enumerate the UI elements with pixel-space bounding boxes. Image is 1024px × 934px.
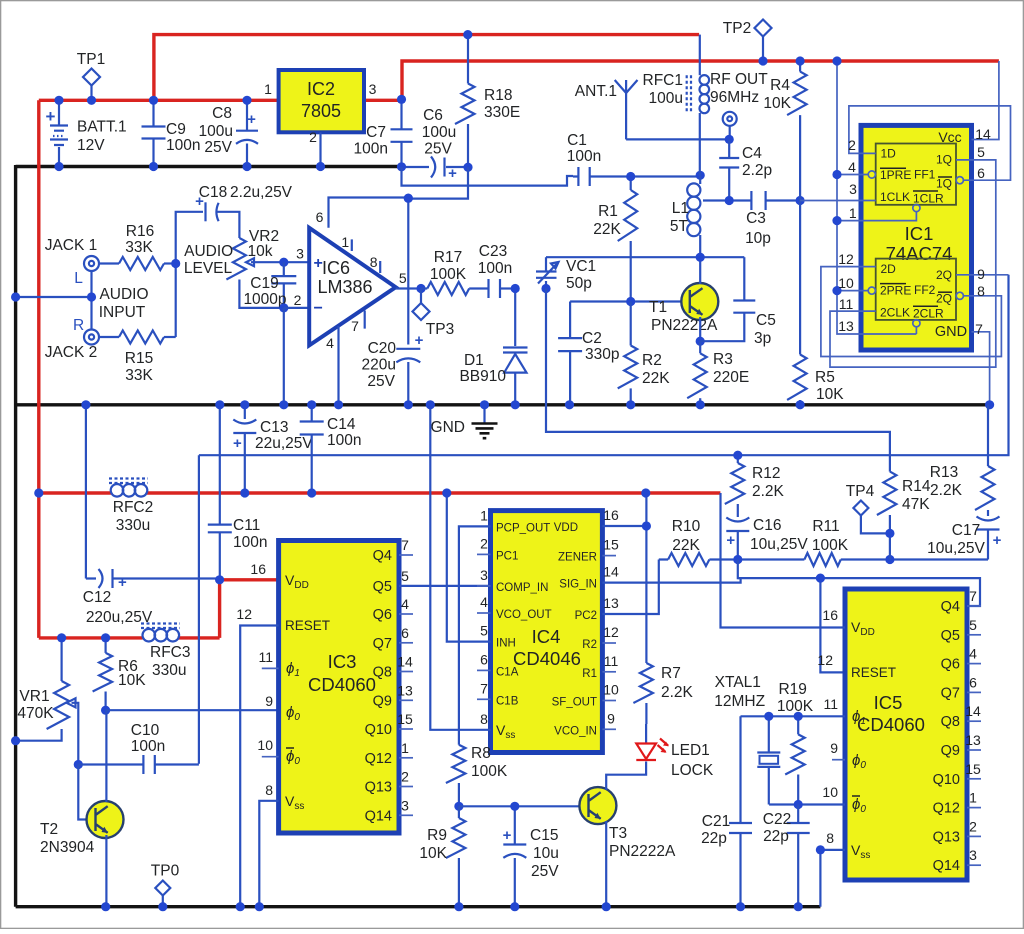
node IC4 Vss ground: [426, 400, 435, 409]
svg-text:Q12: Q12: [365, 751, 392, 767]
svg-text:3: 3: [849, 181, 857, 197]
svg-text:13: 13: [838, 318, 854, 334]
svg-text:ZENER: ZENER: [558, 552, 597, 564]
svg-text:RFC3: RFC3: [150, 644, 190, 661]
wire T2 collector: [105, 710, 107, 802]
node C7 ground: [397, 162, 406, 171]
node C9 ground: [149, 162, 158, 171]
svg-text:4: 4: [969, 646, 977, 662]
node L1 top: [696, 171, 705, 180]
svg-text:TP3: TP3: [426, 321, 454, 338]
resistor R2: [630, 302, 632, 346]
svg-text:13: 13: [397, 682, 413, 698]
svg-text:33K: 33K: [125, 367, 153, 384]
svg-text:R4: R4: [770, 77, 790, 94]
svg-text:C9: C9: [166, 121, 186, 138]
node R2 ground: [626, 400, 635, 409]
svg-text:Q7: Q7: [941, 685, 960, 701]
svg-text:R10: R10: [672, 518, 701, 535]
node C2 ground: [565, 400, 574, 409]
wire T2 base: [78, 765, 95, 820]
node R5 ground: [796, 400, 805, 409]
node R16 junction: [171, 259, 180, 268]
wire 2Q feedback line: [199, 275, 1009, 455]
svg-text:4: 4: [326, 335, 334, 351]
wire IC5 phi1 line: [741, 715, 846, 717]
wire pin4 1PRE: [837, 174, 868, 176]
wire pin1 1CLR: [837, 212, 916, 221]
svg-text:R12: R12: [752, 465, 780, 482]
svg-text:CD4060: CD4060: [308, 674, 376, 695]
svg-text:C18: C18: [199, 184, 227, 201]
wire T2 emitter: [105, 835, 107, 907]
capacitor C7: [400, 99, 402, 129]
wire IC4 VDD to 5V: [602, 493, 646, 663]
svg-text:10p: 10p: [745, 230, 771, 247]
IC3 phi0bar stub: [262, 756, 279, 758]
resistor R6: [104, 638, 106, 653]
IC IC1 74AC74 body: [861, 125, 972, 350]
svg-text:R19: R19: [778, 681, 806, 698]
wire SIGIN step: [738, 577, 741, 579]
wire opamp pin5 out: [396, 287, 421, 289]
svg-text:R11: R11: [812, 518, 839, 535]
svg-text:1: 1: [341, 234, 349, 250]
svg-text:3: 3: [369, 81, 377, 97]
svg-text:2: 2: [848, 137, 856, 153]
svg-text:Q14: Q14: [365, 808, 392, 824]
svg-text:16: 16: [603, 507, 619, 523]
IC3 output pins: [399, 554, 413, 556]
svg-text:BB910: BB910: [459, 368, 506, 385]
wire T1 base: [570, 300, 682, 302]
inductor RFC2: [109, 479, 148, 484]
svg-text:TP1: TP1: [77, 51, 105, 68]
svg-text:10K: 10K: [816, 386, 844, 403]
node VC1: [541, 284, 550, 293]
IC IC4 CD4046 body: [491, 511, 603, 753]
wire black rail bottom (ground bus 4): [16, 905, 821, 908]
svg-text:100u: 100u: [649, 90, 683, 107]
svg-text:11: 11: [258, 649, 273, 665]
svg-text:TP4: TP4: [846, 483, 875, 500]
svg-text:12: 12: [817, 652, 833, 668]
node IC4 VDD: [642, 521, 651, 530]
svg-text:IC4: IC4: [532, 626, 561, 647]
node D1: [511, 284, 520, 293]
svg-text:16: 16: [822, 607, 838, 623]
svg-text:R2: R2: [582, 639, 597, 651]
wire filter line: [659, 558, 988, 560]
svg-text:100u: 100u: [422, 124, 456, 141]
svg-text:Q10: Q10: [933, 772, 960, 788]
svg-text:6: 6: [969, 674, 977, 690]
resistor R16: [99, 262, 119, 264]
resistor R18: [467, 35, 469, 84]
node pin4 ground: [334, 400, 343, 409]
antenna ANT.1: [625, 93, 627, 139]
svg-text:5T: 5T: [670, 218, 689, 235]
svg-text:Q5: Q5: [373, 579, 392, 595]
wire IC5 phi0bar line: [769, 803, 845, 805]
svg-text:R16: R16: [126, 223, 154, 240]
battery BATT.1: [58, 100, 60, 125]
svg-text:100n: 100n: [354, 141, 388, 158]
svg-text:C21: C21: [702, 813, 730, 830]
svg-text:5: 5: [969, 617, 977, 633]
svg-text:Q13: Q13: [933, 829, 960, 845]
op-amp IC6 LM386: [309, 228, 396, 346]
flip-flop FF2 box: [876, 259, 956, 320]
capacitor C23: [489, 279, 501, 298]
connector RF OUT: [723, 112, 737, 126]
svg-text:SF_OUT: SF_OUT: [552, 697, 597, 709]
svg-text:22p: 22p: [701, 830, 727, 847]
svg-text:PN2222A: PN2222A: [651, 317, 718, 334]
svg-text:100K: 100K: [430, 266, 467, 283]
resistor R3: [699, 341, 701, 353]
wire VC1 tuning line: [546, 289, 890, 472]
wire red rail low (RFC3 feed): [39, 580, 280, 638]
wire IC4 INH to 5V: [447, 493, 491, 642]
inductor RFC1: [699, 35, 701, 76]
svg-text:+: +: [118, 574, 127, 591]
resistor R5: [799, 201, 801, 355]
svg-text:RESET: RESET: [851, 665, 896, 680]
svg-text:PC1: PC1: [496, 550, 518, 562]
wire pin2 1D loop: [849, 106, 1011, 180]
svg-text:10k: 10k: [248, 243, 273, 260]
svg-text:ANT.1: ANT.1: [575, 83, 617, 100]
svg-text:2Q: 2Q: [936, 292, 952, 306]
svg-text:5: 5: [977, 144, 985, 160]
node amp supply ground: [404, 400, 413, 409]
wire pin2 to amp: [284, 307, 309, 309]
svg-text:C23: C23: [479, 243, 507, 260]
svg-text:12: 12: [838, 251, 854, 267]
LED LED1 LOCK: [645, 724, 647, 743]
node reset riser: [816, 574, 825, 583]
svg-text:R: R: [73, 317, 84, 334]
capacitor C21: [739, 716, 741, 823]
svg-text:+: +: [726, 532, 735, 549]
resistor R10: [668, 553, 709, 566]
svg-text:R18: R18: [484, 87, 512, 104]
svg-text:3: 3: [401, 797, 409, 813]
svg-text:3: 3: [296, 246, 304, 262]
wire C1 to L1: [631, 175, 701, 177]
node R11 right: [885, 555, 894, 564]
svg-text:10: 10: [838, 275, 854, 291]
svg-text:22K: 22K: [593, 221, 621, 238]
node C3/R4/R5: [796, 196, 805, 205]
svg-text:IC2: IC2: [307, 79, 335, 99]
node pin6 junction: [404, 194, 413, 203]
svg-text:13: 13: [603, 595, 619, 611]
svg-text:LM386: LM386: [317, 277, 372, 297]
svg-text:8: 8: [480, 711, 488, 727]
wire pin3 1CLK: [800, 200, 876, 202]
svg-text:R3: R3: [713, 351, 733, 368]
svg-text:25V: 25V: [204, 139, 232, 156]
svg-text:22K: 22K: [672, 537, 700, 554]
wire red IC2 pin3 to 5V bus: [364, 61, 999, 100]
svg-text:R15: R15: [125, 350, 153, 367]
svg-text:8: 8: [977, 283, 985, 299]
node preset bus top: [832, 56, 841, 65]
wire C7 to C1 net: [402, 167, 574, 186]
wire IC5 Vss: [820, 850, 845, 907]
svg-text:C15: C15: [530, 827, 558, 844]
svg-text:2CLK: 2CLK: [880, 305, 910, 319]
svg-text:15: 15: [603, 537, 619, 553]
wire red left vertical: [37, 100, 40, 638]
svg-text:R2: R2: [642, 352, 662, 369]
svg-text:Q10: Q10: [365, 722, 392, 738]
svg-text:1Q: 1Q: [936, 153, 952, 167]
capacitor C12: [85, 405, 87, 579]
wire C6 to amp supply: [408, 167, 468, 198]
node R19 top: [794, 712, 803, 721]
svg-text:PC2: PC2: [575, 610, 597, 622]
svg-text:C10: C10: [131, 722, 160, 739]
node C21 ground: [736, 902, 745, 911]
node IC1 ground: [985, 400, 994, 409]
resistor R17: [421, 287, 427, 289]
svg-text:PCP_OUT: PCP_OUT: [496, 522, 550, 534]
IC3 reset wire: [240, 626, 278, 907]
node R18 top: [463, 30, 472, 39]
wire T3 collector: [606, 762, 646, 791]
svg-text:RF OUT: RF OUT: [710, 71, 768, 88]
svg-text:T1: T1: [649, 299, 667, 316]
wire pin8 2Qbar to 2D: [821, 267, 1002, 357]
node pin2: [279, 303, 288, 312]
wire black rail middle (ground bus 2): [16, 403, 990, 406]
transistor T2 2N3904: [87, 801, 124, 838]
svg-text:10u,25V: 10u,25V: [927, 540, 985, 557]
svg-text:R14: R14: [902, 478, 931, 495]
svg-text:TP0: TP0: [151, 863, 180, 880]
wire IC5 VDD wire: [721, 493, 846, 628]
capacitor C9: [152, 100, 154, 126]
svg-text:+: +: [415, 332, 424, 349]
wire red battery rail: [39, 99, 279, 102]
capacitor C13: [244, 405, 246, 419]
svg-text:R1: R1: [598, 203, 618, 220]
svg-text:6: 6: [480, 651, 488, 667]
svg-text:15: 15: [965, 761, 981, 777]
potentiometer VR2: [226, 238, 246, 280]
svg-text:INPUT: INPUT: [99, 304, 146, 321]
node T3 emitter: [602, 902, 611, 911]
IC3 Vss wire: [259, 801, 278, 907]
svg-text:R8: R8: [471, 745, 491, 762]
node R8 bottom: [454, 802, 463, 811]
svg-text:+: +: [314, 255, 323, 272]
svg-text:7805: 7805: [301, 101, 341, 121]
svg-text:LED1: LED1: [671, 742, 710, 759]
svg-text:7: 7: [401, 537, 409, 553]
svg-text:100n: 100n: [478, 260, 512, 277]
svg-text:C5: C5: [756, 312, 776, 329]
svg-text:12V: 12V: [77, 137, 105, 154]
svg-text:4: 4: [848, 159, 856, 175]
svg-text:C11: C11: [233, 517, 260, 534]
svg-text:PN2222A: PN2222A: [609, 843, 676, 860]
resistor R13: [987, 405, 989, 466]
capacitor C16: [726, 518, 749, 522]
svg-text:100n: 100n: [233, 534, 267, 551]
node INH 5V: [442, 488, 451, 497]
node VR1 ground: [11, 736, 20, 745]
svg-text:GND: GND: [935, 324, 967, 340]
svg-text:10K: 10K: [419, 845, 447, 862]
node pin5: [416, 284, 425, 293]
svg-text:VCO_OUT: VCO_OUT: [496, 609, 552, 621]
svg-text:10: 10: [257, 737, 273, 753]
svg-text:10u: 10u: [533, 845, 559, 862]
svg-text:330u: 330u: [152, 662, 186, 679]
node IC3 Vss ground: [255, 902, 264, 911]
node T1 emitter: [696, 337, 705, 346]
svg-text:8: 8: [370, 254, 378, 270]
varactor D1 BB910: [514, 289, 516, 347]
svg-text:10u,25V: 10u,25V: [750, 536, 808, 553]
node pin3: [279, 258, 288, 267]
svg-text:100u: 100u: [199, 123, 233, 140]
capacitor C10: [78, 763, 143, 765]
node VR1 wiper: [74, 760, 83, 769]
svg-text:Q4: Q4: [941, 599, 960, 615]
wire pin5 1Q to 2CLK: [830, 160, 996, 367]
svg-text:2.2p: 2.2p: [742, 162, 772, 179]
pin8 2Q-bar bubble: [956, 292, 963, 299]
wire IC5 reset riser: [820, 578, 845, 672]
svg-text:C7: C7: [366, 124, 386, 141]
wire black left frame: [14, 165, 17, 907]
svg-text:6: 6: [977, 165, 985, 181]
svg-text:Q8: Q8: [373, 665, 392, 681]
wire phase0 line: [106, 709, 279, 711]
svg-text:330p: 330p: [585, 346, 619, 363]
svg-text:+: +: [233, 435, 242, 452]
svg-text:2.2K: 2.2K: [930, 482, 963, 499]
svg-text:LOCK: LOCK: [671, 762, 714, 779]
svg-text:IC1: IC1: [905, 223, 934, 244]
capacitor C15: [514, 806, 516, 844]
svg-text:BATT.1: BATT.1: [77, 119, 127, 136]
capacitor C20: [396, 348, 420, 350]
svg-text:C16: C16: [753, 517, 781, 534]
wire pin14 Vcc: [972, 61, 999, 140]
node C11 ground: [215, 400, 224, 409]
svg-text:10: 10: [603, 682, 619, 698]
svg-text:22u,25V: 22u,25V: [255, 435, 313, 452]
svg-text:GND: GND: [431, 419, 465, 436]
svg-text:5: 5: [399, 270, 407, 286]
svg-text:C14: C14: [327, 416, 356, 433]
capacitor C3: [751, 191, 765, 210]
svg-text:IC6: IC6: [322, 258, 350, 278]
svg-text:11: 11: [604, 653, 619, 669]
svg-text:220u: 220u: [362, 357, 396, 374]
resistor R14: [877, 472, 897, 515]
wire VR2 wiper to pin3: [284, 261, 309, 263]
node VDD 5V rail: [641, 488, 650, 497]
svg-text:3p: 3p: [754, 330, 771, 347]
node R9 ground: [454, 902, 463, 911]
capacitor C1: [578, 167, 589, 186]
IC5 phi0 stub: [832, 759, 845, 761]
svg-text:RFC2: RFC2: [113, 499, 153, 516]
node C14 5V: [307, 488, 316, 497]
resistor R9: [458, 806, 460, 818]
svg-text:14: 14: [397, 654, 413, 670]
svg-text:470K: 470K: [17, 705, 54, 722]
svg-text:100n: 100n: [131, 738, 165, 755]
node audio frame: [11, 292, 20, 301]
svg-text:22p: 22p: [763, 828, 789, 845]
test point TP2: [762, 37, 764, 62]
svg-text:VR1: VR1: [19, 688, 49, 705]
svg-text:D1: D1: [464, 352, 484, 369]
capacitor C14: [311, 405, 313, 422]
svg-text:3: 3: [969, 847, 977, 863]
svg-text:1CLK: 1CLK: [880, 190, 910, 204]
wire IC4 SIG_IN: [602, 578, 740, 583]
svg-text:7: 7: [351, 318, 359, 334]
svg-text:330E: 330E: [484, 104, 520, 121]
svg-text:25V: 25V: [531, 863, 559, 880]
node TP1 rail: [87, 96, 96, 105]
svg-text:100n: 100n: [567, 148, 601, 165]
svg-text:2.2u,25V: 2.2u,25V: [230, 184, 293, 201]
svg-text:JACK 2: JACK 2: [45, 344, 98, 361]
svg-text:FF1: FF1: [914, 168, 936, 182]
svg-text:2CLR: 2CLR: [913, 307, 944, 321]
node pin2 ground: [279, 400, 288, 409]
svg-text:25V: 25V: [367, 373, 395, 390]
node antenna junction: [725, 135, 734, 144]
capacitor C6: [402, 166, 469, 168]
connector JACK 2: [84, 330, 99, 345]
test point TP3: [420, 289, 422, 304]
wire IC2 pin2: [319, 132, 321, 166]
svg-text:C1A: C1A: [496, 666, 519, 678]
svg-text:2.2K: 2.2K: [661, 684, 694, 701]
wire Q4 reference line: [738, 560, 980, 607]
svg-text:C3: C3: [746, 210, 766, 227]
svg-text:2N3904: 2N3904: [40, 839, 95, 856]
svg-text:AUDIO: AUDIO: [184, 243, 233, 260]
resistor R19: [797, 716, 799, 734]
svg-text:C12: C12: [83, 589, 111, 606]
svg-text:1: 1: [401, 740, 409, 756]
svg-text:33K: 33K: [125, 239, 153, 256]
svg-text:1: 1: [480, 507, 488, 523]
node pin4: [832, 170, 841, 179]
node R12 top: [733, 451, 742, 460]
wire IC4 pin1 to R8: [459, 526, 491, 744]
svg-text:VDD: VDD: [554, 522, 578, 534]
svg-text:Q4: Q4: [373, 548, 392, 564]
node 5V rail left: [34, 488, 43, 497]
svg-text:1D: 1D: [881, 147, 897, 161]
node C9 rail: [149, 96, 158, 105]
node pin1: [832, 216, 841, 225]
node pin10: [832, 286, 841, 295]
